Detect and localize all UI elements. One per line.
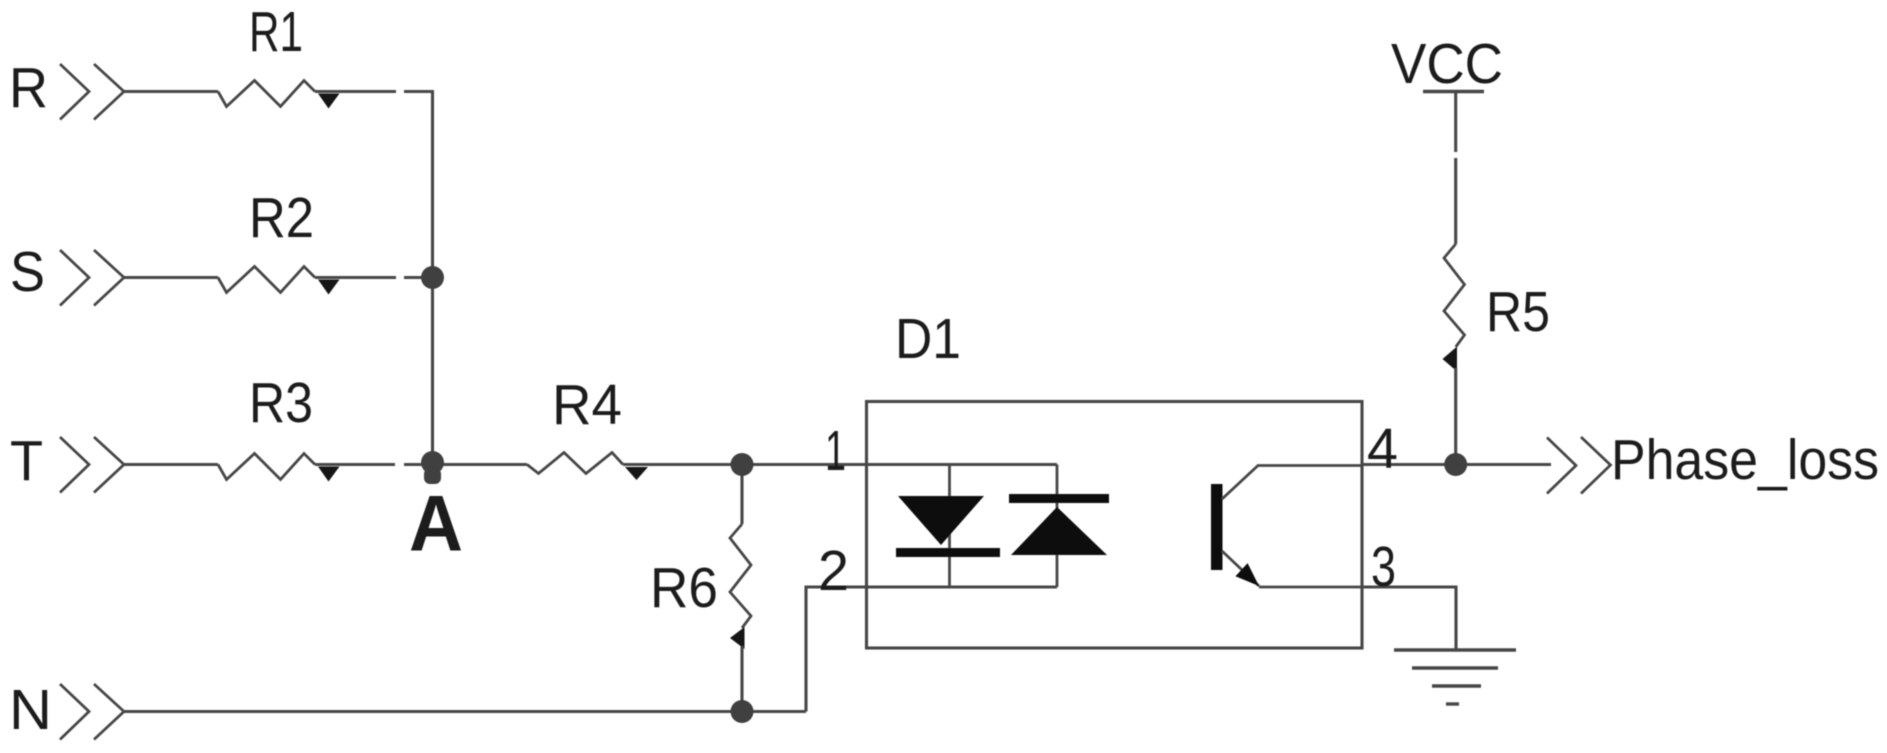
wire S input to R2 xyxy=(124,276,218,279)
junction N/R6 xyxy=(731,700,754,723)
node N input connector xyxy=(60,684,124,740)
svg-text:VCC: VCC xyxy=(1391,32,1503,96)
wire T input to R3 xyxy=(124,463,218,466)
resistor R2 xyxy=(218,267,315,293)
wire VCC down xyxy=(1454,93,1457,152)
junction R5/pin4 xyxy=(1444,453,1467,476)
wire pin 4 to output xyxy=(1362,463,1551,466)
optocoupler D1 box xyxy=(867,402,1363,649)
node R input connector xyxy=(60,64,124,120)
svg-text:3: 3 xyxy=(1371,535,1396,599)
ground xyxy=(1394,650,1516,704)
resistor R6 xyxy=(730,524,751,628)
wire R2 to junction xyxy=(315,276,396,279)
svg-text:R2: R2 xyxy=(249,186,314,250)
svg-text:N: N xyxy=(9,678,52,742)
wire pin 3 to ground xyxy=(1362,587,1456,650)
junction R4/R6/pin1 xyxy=(731,453,754,476)
svg-text:R: R xyxy=(9,56,48,120)
svg-text:A: A xyxy=(409,479,463,568)
node A junction xyxy=(421,451,444,474)
resistor R5 xyxy=(1444,244,1465,347)
wire R4 to junction and pin 1 xyxy=(623,463,1057,466)
wire led left branch xyxy=(948,465,951,588)
wire N junction up to pin2 xyxy=(806,587,865,712)
resistor R3 xyxy=(218,454,315,480)
wire R6 to N row xyxy=(740,646,743,712)
diode D1b (up) xyxy=(1009,494,1109,555)
wire N row xyxy=(124,710,806,713)
wire R1 to corner xyxy=(315,90,396,93)
wire pin 2 inner xyxy=(865,585,1057,588)
wire R3 to node A xyxy=(315,463,395,466)
diode D1a (down) xyxy=(896,496,1000,557)
svg-text:R4: R4 xyxy=(552,373,622,437)
svg-text:Phase_loss: Phase_loss xyxy=(1611,428,1879,492)
svg-text:R3: R3 xyxy=(249,371,313,435)
wire junction down to R6 xyxy=(740,465,743,525)
junction S xyxy=(421,266,444,289)
node S input connector xyxy=(60,250,124,306)
svg-text:T: T xyxy=(10,429,43,493)
resistor R1 xyxy=(218,81,315,107)
wire node A to R4 xyxy=(440,463,527,466)
phototransistor Q xyxy=(1211,466,1362,588)
svg-text:S: S xyxy=(10,240,45,304)
wire R5 to junction xyxy=(1454,368,1457,465)
svg-text:2: 2 xyxy=(818,539,849,603)
node Phase_loss output connector xyxy=(1547,437,1611,494)
wire R input to R1 xyxy=(124,90,218,93)
svg-text:R6: R6 xyxy=(650,556,718,620)
wire led right branch xyxy=(1056,465,1059,588)
resistor R4 xyxy=(527,453,623,474)
wire vertical bus R/S/T xyxy=(431,92,434,465)
svg-text:R1: R1 xyxy=(249,0,303,64)
node T input connector xyxy=(60,437,124,493)
svg-text:D1: D1 xyxy=(895,307,961,371)
svg-text:4: 4 xyxy=(1367,417,1398,481)
svg-text:R5: R5 xyxy=(1486,280,1550,344)
power VCC xyxy=(1423,90,1484,93)
svg-text:1: 1 xyxy=(825,419,846,483)
